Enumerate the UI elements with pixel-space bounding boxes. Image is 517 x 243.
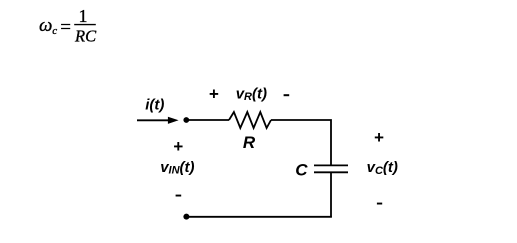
svg-text:c: c	[52, 25, 57, 37]
label - of vIN	[176, 195, 182, 197]
label - of vC	[377, 203, 382, 205]
svg-text:vR(t): vR(t)	[236, 85, 267, 103]
capacitor C plates	[314, 165, 348, 172]
svg-text:C: C	[295, 161, 308, 180]
resistor R	[229, 112, 271, 128]
svg-text:+: +	[374, 128, 384, 147]
node bottom-left junction dot	[183, 214, 189, 220]
node top-left junction dot	[183, 117, 189, 123]
svg-text:1: 1	[79, 6, 88, 26]
svg-text:i(t): i(t)	[145, 96, 164, 113]
svg-text:RC: RC	[74, 27, 97, 46]
svg-text:R: R	[243, 133, 256, 152]
wire resistor to top-right corner	[271, 120, 331, 165]
svg-text:ω: ω	[39, 15, 52, 36]
label - of vR	[284, 94, 290, 96]
equation omega_c = 1/RC	[39, 6, 97, 46]
wire node to resistor	[186, 119, 229, 121]
current arrow	[137, 117, 179, 124]
wire capacitor to bottom-right corner	[330, 172, 332, 217]
svg-text:+: +	[173, 137, 183, 156]
svg-text:+: +	[209, 84, 219, 103]
bottom return wire	[186, 216, 332, 218]
svg-text:=: =	[60, 17, 71, 38]
svg-text:vC(t): vC(t)	[367, 159, 398, 177]
